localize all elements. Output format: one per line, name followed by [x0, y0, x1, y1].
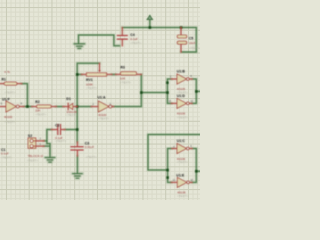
- inverter U1:A: [91, 101, 113, 112]
- resistor R2: [32, 105, 57, 108]
- wire U1:A out: [113, 106, 141, 108]
- node dot bracket C/E: [166, 169, 169, 172]
- wire ground#1 horizontal run: [79, 35, 120, 46]
- svg-text:<TEXT>: <TEXT>: [86, 86, 97, 90]
- svg-text:<TEXT>: <TEXT>: [55, 139, 66, 143]
- capacitor C2: [52, 125, 66, 135]
- potentiometer RV1: [82, 63, 113, 76]
- svg-text:C5: C5: [189, 36, 194, 40]
- inverter U1:C: [172, 144, 192, 154]
- svg-text:<TEXT>: <TEXT>: [35, 112, 46, 116]
- wire rail right corner down: [195, 28, 197, 53]
- ground under C3: [73, 174, 83, 179]
- capacitor C4: [117, 28, 127, 46]
- node dot RV1 left: [76, 73, 79, 76]
- inverter U1:B: [171, 74, 192, 84]
- wire bracket U1:B/D: [167, 79, 171, 103]
- diode D1: [63, 103, 77, 109]
- node dot bracket C/E lower: [166, 176, 169, 179]
- wire VDD rail top: [122, 27, 196, 29]
- power arrow VDD: [147, 15, 153, 19]
- wire R3 right corner down: [140, 74, 142, 106]
- terminal block S2: [28, 138, 44, 148]
- wire C/E feed from right edge: [148, 135, 200, 171]
- svg-text:<TEXT>: <TEXT>: [120, 81, 131, 85]
- node dot U1:F output: [26, 105, 29, 108]
- inverter U1:E: [171, 177, 192, 187]
- wire C5 bottom to right vertical: [181, 51, 196, 53]
- node dot power stub: [149, 26, 152, 29]
- svg-text:S2: S2: [28, 134, 32, 138]
- wire RV1 wiper loop: [77, 63, 99, 74]
- wire C3 bottom to ground: [76, 156, 78, 173]
- svg-text:<TEXT>: <TEXT>: [66, 113, 77, 117]
- wire node column x77 (RV1 to C3): [76, 74, 78, 142]
- wire R1 right to U1:F output node: [22, 84, 28, 107]
- svg-text:4.7k: 4.7k: [4, 70, 10, 74]
- node dot out C/E: [195, 170, 198, 173]
- svg-text:<TEXT>: <TEXT>: [177, 160, 188, 164]
- node dot bracket B/D upper: [166, 81, 169, 84]
- lead halo (soft red): [0, 28, 192, 183]
- svg-text:<TEXT>: <TEXT>: [86, 155, 97, 159]
- wire bracket U1:C/E: [168, 149, 172, 183]
- svg-text:R2: R2: [35, 100, 40, 104]
- node dot C2: [76, 128, 79, 131]
- wire B/D out stub right edge: [196, 90, 200, 92]
- wire RV1 right to R3: [112, 73, 116, 75]
- ground top (near C4): [74, 44, 84, 49]
- resistor R1: [0, 82, 22, 85]
- node dot D1/U1:A: [76, 105, 79, 108]
- svg-text:U1:E: U1:E: [176, 173, 185, 177]
- svg-text:10uF: 10uF: [189, 41, 196, 45]
- wire RV1 left: [77, 73, 81, 75]
- wire S2 pin2 stub: [44, 140, 47, 142]
- wire C2 left to S2 top pin: [47, 130, 52, 158]
- svg-text:<TEXT>: <TEXT>: [177, 194, 188, 198]
- svg-text:D1: D1: [66, 97, 71, 101]
- wire U1:B out: [192, 79, 196, 103]
- svg-text:<TEXT>: <TEXT>: [27, 158, 38, 162]
- wire halo (soft edges): [22, 19, 200, 182]
- svg-text:<TEXT>: <TEXT>: [4, 91, 15, 95]
- node dot out B/D: [195, 90, 198, 93]
- svg-text:U1:A: U1:A: [97, 96, 106, 100]
- svg-text:C2: C2: [55, 124, 60, 128]
- wire U1:C out: [192, 149, 196, 183]
- svg-text:U1:F: U1:F: [2, 98, 11, 102]
- svg-text:<TEXT>: <TEXT>: [177, 115, 188, 119]
- wire power arrow stub: [149, 19, 151, 28]
- resistor R3: [116, 72, 142, 75]
- svg-text:40106: 40106: [4, 115, 13, 119]
- ground under S2: [45, 158, 55, 163]
- wire D1 to U1:A input: [77, 106, 91, 108]
- svg-text:0.01uF: 0.01uF: [85, 145, 95, 149]
- svg-text:R3: R3: [120, 65, 125, 69]
- svg-text:<TEXT>: <TEXT>: [130, 41, 141, 45]
- svg-text:U1:B: U1:B: [177, 70, 186, 74]
- wire feed to U1:B/D bracket: [141, 92, 167, 94]
- wire ground#1 stub: [78, 35, 80, 43]
- svg-text:<TEXT>: <TEXT>: [1, 156, 12, 160]
- wire R2 to D1: [56, 106, 64, 108]
- inverter U1:F: [0, 101, 24, 112]
- capacitor C5 (electrolytic): [177, 28, 187, 53]
- svg-text:U1:C: U1:C: [177, 139, 186, 143]
- wire U1:F out to R2: [24, 106, 32, 108]
- wire C2 right to node: [65, 129, 77, 131]
- node dot bracket B/D: [166, 91, 169, 94]
- node dot feed R3 column: [140, 91, 143, 94]
- inverter U1:D: [171, 98, 192, 108]
- node dot C5 top: [180, 26, 183, 29]
- wire C/E out stub right edge: [196, 170, 200, 172]
- capacitor C3: [71, 142, 83, 156]
- svg-text:<TEXT>: <TEXT>: [189, 46, 200, 50]
- wire S2 pin1 stub: [44, 145, 50, 147]
- svg-text:<TEXT>: <TEXT>: [4, 120, 15, 124]
- svg-text:U1:D: U1:D: [177, 94, 186, 98]
- svg-text:<TEXT>: <TEXT>: [98, 116, 109, 120]
- svg-text:R1: R1: [2, 77, 7, 81]
